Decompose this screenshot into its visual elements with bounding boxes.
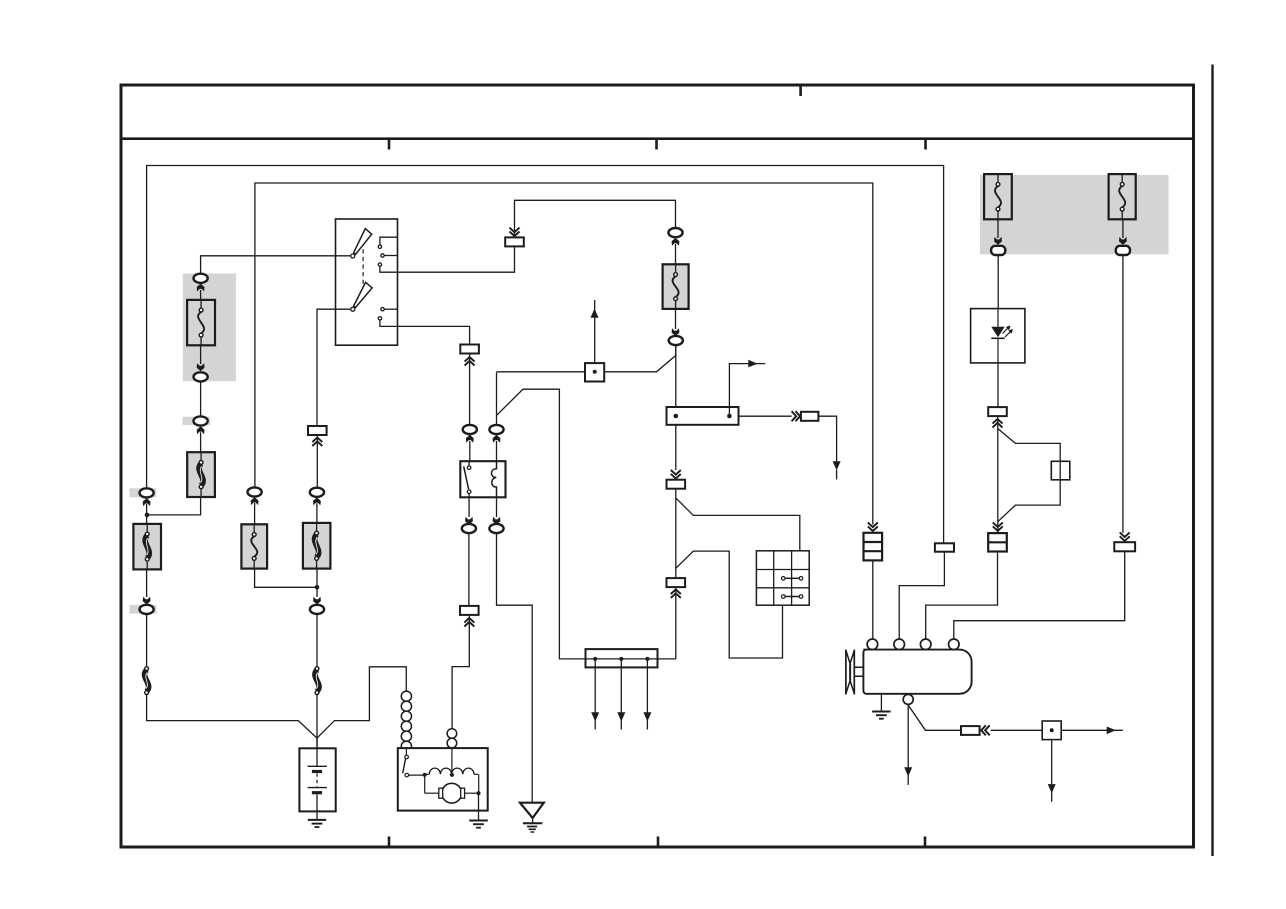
connector 10A female [991, 246, 1005, 255]
wire AM2 feed loop [255, 183, 873, 525]
wire JC2 internal bus [587, 658, 657, 660]
connector 6A [505, 237, 524, 246]
arrowhead JC1 right [748, 360, 757, 368]
battery [299, 748, 335, 811]
connector 9A chevrons [671, 470, 681, 475]
wire JC2 arrow 2 [620, 659, 622, 730]
fuse AM2 [241, 524, 267, 568]
wire switch pin stub 2 [384, 255, 397, 257]
wire 9B to junction bar [675, 587, 677, 659]
connector E4 chevrons [1120, 532, 1130, 537]
connector 12A female [1116, 246, 1130, 255]
starter relay [460, 461, 505, 497]
wire 4B to fusible IG [316, 503, 318, 523]
grid tick row2 c [924, 139, 927, 150]
wire battery positive riser [316, 694, 318, 748]
connector 9A [667, 480, 686, 489]
connector 5B arrow [466, 435, 474, 443]
connector 1B female [130, 605, 157, 614]
connector 5F female [489, 524, 503, 533]
wire 10A to light sensor [997, 255, 999, 309]
connector E1 block [864, 533, 883, 561]
JC1 node right [727, 414, 732, 419]
wire coil ground run [497, 533, 533, 802]
wire 4C to link W2 [316, 614, 318, 667]
connector 2A female [194, 274, 208, 283]
connector E3 chevrons [993, 522, 1003, 527]
border frame [121, 85, 1194, 847]
starter motor box [398, 748, 488, 811]
starter ground [469, 820, 488, 822]
arrowhead J1 up [591, 309, 599, 318]
shade panel left column [183, 274, 236, 382]
wire 4A down [316, 435, 318, 488]
engine mount circles [867, 639, 959, 650]
connector 5E chevrons [464, 622, 474, 627]
grid tick bottom a [388, 837, 391, 848]
wire JC1 output right [739, 415, 792, 417]
connector 11A [988, 407, 1007, 416]
wire sensor to 11A [997, 363, 999, 407]
junction box J1 [585, 363, 604, 381]
wire J2 down arrow [1051, 740, 1053, 802]
fusible link W (mid) [315, 670, 319, 692]
wire 5C to relay [496, 441, 498, 461]
wire left link to battery V [147, 694, 317, 738]
engine ground boss [903, 694, 913, 704]
connector 4C arrow [313, 597, 321, 605]
wire 7A to fuse ST [675, 244, 677, 264]
JC2 node 3 [645, 657, 649, 661]
connector 5B female [463, 425, 477, 434]
connector 7B female [669, 336, 683, 345]
junction connector bar JC1 [667, 407, 739, 425]
wire link AM1 to junction [149, 497, 201, 515]
connector 11A chevrons [993, 423, 1003, 428]
wire battery feed B+ (top loop) [147, 166, 944, 544]
connector 2A arrow [197, 284, 205, 292]
wire to battery link W [146, 614, 148, 667]
connector 2B female [194, 372, 208, 381]
connector E2 block [935, 543, 954, 551]
wire to fusible link MAIN [146, 504, 148, 524]
wire 12A long run [1122, 255, 1124, 533]
connector 2B arrow [197, 363, 205, 371]
starter solenoid coil loops [401, 691, 411, 751]
connector 3A female [248, 487, 262, 496]
wire fuse TAIL down [997, 219, 999, 238]
fuse ST [663, 264, 689, 309]
connector 9B chevrons [671, 593, 681, 598]
wire fuse AM1 down [200, 345, 202, 364]
engine pulley [846, 650, 854, 695]
wire 7B to junction box run [497, 345, 676, 372]
connector starter pair [447, 729, 457, 748]
wire relay branch to junction bar [497, 389, 676, 659]
check connector [756, 551, 809, 605]
connector 7A arrow [672, 238, 680, 246]
connector 4B arrow [313, 498, 321, 506]
wire 13A to J2 [991, 729, 1042, 731]
connector E3 block [988, 533, 1007, 551]
arrowhead J2 down [1048, 784, 1056, 793]
connector 5D arrow [465, 517, 473, 525]
arrowhead engine sensor [904, 767, 912, 776]
wire IG2 branch [317, 309, 351, 426]
fusible link AM1 [187, 452, 215, 497]
engine shaft [854, 667, 863, 676]
wire switch pin stub 1 [380, 237, 398, 245]
junction J1 node [593, 370, 597, 374]
grid tick top [799, 85, 802, 96]
connector 5D female [462, 524, 476, 533]
page edge rule [1211, 65, 1213, 857]
connector 4A chevrons [312, 441, 322, 446]
wire 9A to 9B [675, 489, 677, 579]
wire shield bracket top [998, 429, 1060, 462]
connector 13A chevrons [981, 725, 986, 735]
wire 2B to 2C [200, 382, 202, 417]
wire relay sw out [468, 497, 470, 517]
wire battery to ground [316, 811, 318, 820]
wire fuse AM2 to junction [255, 569, 317, 588]
wire 5B to relay [469, 441, 471, 461]
wire relay coil feed [496, 372, 498, 425]
fuse TAIL [984, 174, 1012, 219]
grid tick row2 a [388, 139, 391, 150]
wire starter ground [478, 793, 480, 820]
fusible link MAIN [133, 524, 161, 570]
junction node battery feed [145, 513, 150, 518]
wire branch to check connector top [676, 498, 800, 551]
fusible link W (left) [145, 670, 149, 692]
connector 12A arrow [1119, 237, 1127, 245]
JC2 node 2 [619, 657, 623, 661]
JC2 node 1 [593, 657, 597, 661]
wire engine case ground [880, 694, 882, 712]
wire 5A to 5B [469, 354, 471, 425]
wire top link ST run [515, 200, 676, 237]
connector 1B arrow [143, 597, 151, 605]
wire to fusible link AM1 [200, 432, 202, 452]
fuse AM1 [187, 300, 215, 345]
wire J1 arrow up [594, 300, 596, 363]
ignition switch SW1 body [336, 219, 398, 345]
connector 4A [308, 426, 327, 435]
wire E3 jog to engine [926, 552, 998, 640]
wire engine sensor down arrow [907, 704, 909, 785]
wire AM1 to ignition switch [201, 256, 352, 275]
shade panel top right [980, 175, 1169, 254]
engine block [863, 650, 971, 694]
junction box J2 [1042, 721, 1061, 740]
connector 13A [961, 726, 980, 735]
arrowhead J2 right [1107, 727, 1116, 735]
wire IG terminal to relay feed connector [380, 320, 470, 345]
connector 1A arrow [143, 498, 151, 506]
wire shield bracket bottom [998, 480, 1060, 522]
connector 7B arrow [672, 328, 680, 336]
battery ground [308, 819, 326, 821]
connector E1 chevrons [868, 523, 878, 528]
connector 8A [801, 412, 819, 421]
connector 5F arrow [493, 517, 501, 525]
light sensor (photo diode) [971, 309, 1025, 363]
wire JC2 arrow 1 [594, 659, 596, 730]
fusible link IG [303, 523, 331, 569]
wire battery top [316, 738, 318, 766]
arrowhead 8A down [833, 461, 841, 470]
wire JC1 right arrow [729, 364, 765, 416]
connector E4 block [1114, 542, 1135, 551]
connector 4B female [310, 488, 324, 497]
connector 5C arrow [493, 435, 501, 443]
wire J2 right arrow [1061, 729, 1123, 731]
junction J2 node [1050, 728, 1054, 732]
wire 5E to starter [452, 615, 469, 729]
connector 6A chevrons [510, 228, 520, 233]
junction connector JC2 [586, 649, 658, 667]
grid tick bottom c [924, 837, 927, 848]
ignition switch SW1 contacts [351, 229, 384, 320]
arrowhead JC2 1 [591, 712, 599, 721]
wire fuse DOME down [1122, 219, 1124, 238]
wire 8A down arrow [818, 416, 836, 462]
grid tick bottom b [657, 837, 660, 848]
connector 8A chevrons [792, 411, 797, 421]
engine ground [872, 711, 891, 713]
connector 2C female [183, 417, 211, 425]
wire 11A to E3 block [997, 416, 999, 533]
wire fuse ST down [675, 309, 677, 329]
junction node IG [315, 585, 320, 590]
wire through shield box [1059, 461, 1061, 480]
connector 5E [460, 606, 479, 615]
connector 5A [460, 345, 479, 354]
connector 1A female [130, 488, 157, 497]
arrowhead JC2 3 [643, 712, 651, 721]
wire link IG down [316, 569, 318, 597]
wire fusible MAIN to connector [146, 569, 148, 597]
wire starter branch of V [317, 667, 406, 738]
JC1 node left [674, 414, 679, 419]
grid tick row2 b [655, 139, 658, 150]
body ground triangle [520, 803, 544, 818]
connector 3A arrow [251, 497, 259, 505]
wire branch to check connector bottom [676, 551, 783, 658]
title band divider [121, 137, 1194, 140]
wire 5D to 5E [468, 533, 470, 606]
connector 5C female [489, 425, 503, 434]
arrowhead JC2 2 [617, 712, 625, 721]
wire switch pin stub 3 [384, 308, 397, 310]
wire E4 jog to engine [954, 551, 1125, 639]
connector 4C female [310, 605, 324, 614]
wire E1 to engine [872, 560, 874, 639]
connector 2C arrow [197, 426, 205, 434]
fuse DOME [1109, 174, 1136, 219]
wire ST terminal run [380, 246, 515, 272]
connector 7A female [668, 228, 682, 237]
wire JC1 to DLC run [675, 425, 677, 470]
wire engine signal line [909, 706, 962, 731]
wire 8A tail [836, 470, 838, 479]
connector 10A arrow [994, 237, 1002, 245]
wire E2 jog to engine [899, 552, 944, 640]
wire 7B down to junction connector [675, 345, 677, 407]
wire 3A to fuse [254, 503, 256, 524]
shield box [1051, 461, 1070, 480]
wire 2A arrow to fuse AM1 [200, 290, 202, 300]
connector 5A chevrons [465, 361, 475, 366]
connector 9B [667, 578, 686, 587]
wire relay coil out [496, 497, 498, 517]
wire JC2 arrow 3 [646, 659, 648, 730]
